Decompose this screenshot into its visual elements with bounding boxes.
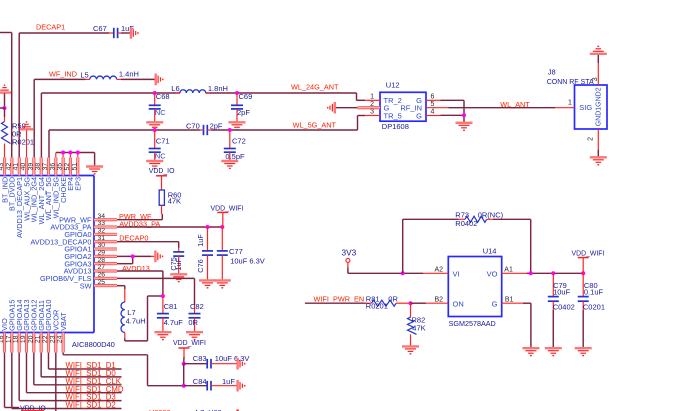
svg-text:31: 31 xyxy=(98,235,106,242)
wire VIO xyxy=(5,353,20,408)
wire WIFI_SD1_D3 xyxy=(19,353,121,402)
IC U? right pin 25 SW xyxy=(80,279,117,291)
svg-text:42: 42 xyxy=(5,163,12,171)
svg-text:WL_5G_ANT: WL_5G_ANT xyxy=(293,121,337,130)
svg-text:WIFI_SD1_D2: WIFI_SD1_D2 xyxy=(66,401,116,410)
node AVDD13 label xyxy=(122,264,150,273)
IC U? right pin 30 GPIOA1 xyxy=(64,242,117,254)
ground at B1 xyxy=(522,348,539,355)
node junction EP rail 3 xyxy=(76,151,80,155)
node junction VO xyxy=(529,271,533,275)
capacitor C77 xyxy=(217,227,265,280)
IC U? top pin 51 EP3 xyxy=(71,158,82,191)
node junction C83 xyxy=(182,362,186,366)
svg-text:23: 23 xyxy=(49,335,56,343)
wire WF_IND to ground xyxy=(121,78,156,80)
wire U12 pin2 to ground xyxy=(336,107,358,109)
svg-text:C81: C81 xyxy=(164,302,178,311)
power VDD_IO bottom xyxy=(20,405,46,411)
svg-text:C84: C84 xyxy=(193,377,207,386)
svg-text:40: 40 xyxy=(20,163,27,171)
U12 pin 6 G xyxy=(416,93,440,105)
svg-text:TR_5: TR_5 xyxy=(384,111,402,120)
resistor R73 xyxy=(455,211,503,229)
node WL_ANT label xyxy=(500,100,530,109)
svg-text:29: 29 xyxy=(98,249,106,256)
IC U14 SGM2578AAD outline xyxy=(448,246,501,328)
capacitor C71 xyxy=(149,130,170,161)
svg-text:28: 28 xyxy=(98,257,106,264)
IC U? top pin 36 WL_IND_5G xyxy=(49,158,60,219)
node junction C68 xyxy=(153,91,157,95)
IC U? bottom pin 18 GPIOA14 xyxy=(13,300,24,353)
ground at U12 xyxy=(456,123,473,130)
ground at C81 xyxy=(154,332,171,339)
wire AVDD33_PA xyxy=(117,226,222,228)
ground at C71 xyxy=(146,161,163,168)
svg-text:1.4nH: 1.4nH xyxy=(119,69,139,78)
svg-text:38: 38 xyxy=(35,163,42,171)
svg-text:2pF: 2pF xyxy=(237,108,250,117)
wire GPIOB6/V_FLS xyxy=(117,278,195,305)
svg-text:EP3: EP3 xyxy=(74,177,83,191)
ground sideways at C67 xyxy=(131,27,138,39)
svg-text:37: 37 xyxy=(42,163,49,171)
clipped text remnants bottom xyxy=(149,408,239,411)
svg-text:47K: 47K xyxy=(168,196,181,205)
resistor R59 xyxy=(2,108,35,158)
IC U? bottom pin 17 GPIOA15 xyxy=(5,300,16,353)
U12 pin 3 TR_5 xyxy=(365,108,402,120)
svg-text:35: 35 xyxy=(57,163,64,171)
svg-text:18: 18 xyxy=(13,335,20,343)
ground at C77 xyxy=(214,280,231,287)
wire DECAP1 xyxy=(19,33,109,158)
wire WIFI_SD1_D2 xyxy=(12,353,122,410)
svg-text:1uF: 1uF xyxy=(196,234,205,247)
svg-text:R0402: R0402 xyxy=(455,219,477,228)
wire BT_DVDD xyxy=(0,33,12,158)
J8 pin 1 SIG xyxy=(555,100,592,112)
capacitor C68 xyxy=(149,92,170,122)
svg-text:CONN RF STA: CONN RF STA xyxy=(547,79,594,86)
ground (flipped) at J8 top xyxy=(590,46,607,53)
svg-text:C82: C82 xyxy=(190,302,204,311)
svg-text:C69: C69 xyxy=(239,92,253,101)
node junction GPIOA2 xyxy=(131,254,135,258)
svg-text:17: 17 xyxy=(5,335,12,343)
IC U? top pin 42 BT_DVDD xyxy=(5,158,16,211)
wire stub to left edge xyxy=(0,107,5,109)
svg-text:20: 20 xyxy=(27,335,34,343)
wire VO rail xyxy=(527,272,584,274)
capacitor C72 xyxy=(224,130,246,161)
capacitor C83 xyxy=(184,354,250,368)
svg-text:39: 39 xyxy=(27,163,34,171)
node AVDD33_PA label xyxy=(119,220,160,229)
svg-text:51: 51 xyxy=(71,163,78,171)
wire VCOR xyxy=(55,353,57,411)
U12 pin 4 G xyxy=(416,108,440,120)
node junction C77 xyxy=(220,225,224,229)
J8 pin 3 xyxy=(592,55,599,86)
svg-text:WL_24G_ANT: WL_24G_ANT xyxy=(291,83,339,92)
ground sideways at U12 pin2 xyxy=(328,102,335,114)
capacitor C75 xyxy=(169,248,184,274)
ground sideways at L5 xyxy=(156,74,163,86)
wire DECAP0 xyxy=(117,242,179,248)
U12 pin 5 RF_IN xyxy=(426,101,448,108)
ground at C80 xyxy=(575,348,592,355)
svg-text:4.7uH: 4.7uH xyxy=(126,317,146,326)
ground at C76 xyxy=(199,280,216,287)
svg-text:VDD_WIFI: VDD_WIFI xyxy=(572,251,605,258)
wire WL_AUX_5G xyxy=(26,130,28,158)
svg-text:L6: L6 xyxy=(171,84,179,93)
svg-text:U12: U12 xyxy=(386,81,400,90)
ground at EP rail xyxy=(86,167,103,174)
node junction C80 xyxy=(581,271,585,275)
node DECAP0 label xyxy=(119,234,148,243)
power VDD_WIFI at C83 xyxy=(173,340,206,364)
svg-text:L5: L5 xyxy=(80,70,88,79)
IC U? top pin 40 WL_AUX_5G xyxy=(20,158,31,221)
node junction R82 xyxy=(409,301,413,305)
wire R73 left xyxy=(403,219,459,273)
resistor R81 xyxy=(366,294,411,310)
node DECAP1 label xyxy=(36,23,65,32)
ground at C75 xyxy=(170,274,187,281)
svg-text:4.7uF: 4.7uF xyxy=(164,318,184,327)
IC U? AIC8800D40 outline xyxy=(0,176,115,350)
IC U? bottom pin 19 GPIOA13 xyxy=(20,300,31,353)
svg-text:VO: VO xyxy=(487,269,498,278)
svg-text:19: 19 xyxy=(20,335,27,343)
IC U? bottom pin 22 GPIOA10 xyxy=(42,300,53,353)
IC U? bottom pin 23 VCOR xyxy=(49,310,60,353)
wire EP rail xyxy=(56,153,95,167)
svg-text:2: 2 xyxy=(370,101,374,108)
power VDD_WIFI at C80 xyxy=(572,251,605,274)
node WF_IND label xyxy=(49,70,77,79)
IC U? bottom pin 24 VBAT xyxy=(57,312,68,353)
connector J8 CONN RF STA outline xyxy=(547,68,607,129)
power VDD_WIFI at C77 xyxy=(211,206,244,227)
svg-text:27: 27 xyxy=(98,264,106,271)
svg-text:C71: C71 xyxy=(156,136,170,145)
ground sideways at GPIOA2 xyxy=(155,251,162,263)
svg-text:21: 21 xyxy=(35,335,42,343)
svg-text:1uF: 1uF xyxy=(121,24,134,33)
svg-text:52: 52 xyxy=(64,163,71,171)
svg-text:0.1uF: 0.1uF xyxy=(584,287,604,296)
inductor L6 xyxy=(171,84,228,93)
resistor R82 xyxy=(408,303,426,346)
node junction C69 xyxy=(235,91,239,95)
resistor R60 xyxy=(159,190,181,214)
capacitor C67 xyxy=(93,24,134,38)
wire PWR_WF xyxy=(117,214,162,220)
wire SW xyxy=(117,286,125,289)
IC U? bottom pin 21 GPIOA11 xyxy=(35,300,46,352)
node PWR_WF label xyxy=(119,212,152,221)
IC U? right pin 28 GPIOA3 xyxy=(64,257,117,269)
node junction R59 top xyxy=(3,106,7,110)
IC U? top pin 41 AVDD13_DECAP1 xyxy=(13,158,24,239)
svg-text:1: 1 xyxy=(568,100,572,107)
wire WL_ANT xyxy=(448,107,555,109)
ground at C68 xyxy=(146,122,163,129)
ground at C72 xyxy=(221,161,238,168)
wire WL_24G_ANT xyxy=(41,93,365,158)
svg-text:U14: U14 xyxy=(483,246,497,255)
IC U? top pin 52 EP4 xyxy=(64,158,75,191)
svg-text:SIG: SIG xyxy=(579,103,592,112)
svg-text:2: 2 xyxy=(588,137,595,141)
ground sideways at C83 xyxy=(238,358,245,370)
wire R73 right xyxy=(493,219,531,273)
IC U? top pin 43 BT_IND xyxy=(0,158,9,203)
ground (flipped) at BT_IND xyxy=(0,85,11,92)
svg-text:1uF: 1uF xyxy=(174,257,183,270)
U14 pin A1 VO xyxy=(487,266,527,278)
svg-text:SGM2578AAD: SGM2578AAD xyxy=(449,319,496,328)
ground at C79 xyxy=(545,348,562,355)
svg-text:WF_IND: WF_IND xyxy=(49,70,77,79)
node junction EP rail 1 xyxy=(61,151,65,155)
svg-text:C0402: C0402 xyxy=(553,303,575,312)
svg-text:WIFI_PWR_EN: WIFI_PWR_EN xyxy=(314,294,365,303)
svg-text:R0201: R0201 xyxy=(366,302,388,311)
svg-text:GND1GND2: GND1GND2 xyxy=(596,87,603,126)
node junction C71 xyxy=(153,128,157,132)
svg-text:J8: J8 xyxy=(548,68,556,77)
svg-text:3: 3 xyxy=(370,108,374,115)
ground at C69 xyxy=(229,122,246,129)
node junction U12 pin4 xyxy=(462,113,466,117)
IC U? top pin 37 WL_ANT_5G xyxy=(42,158,53,221)
svg-text:1uF: 1uF xyxy=(222,377,235,386)
svg-text:G: G xyxy=(492,299,498,308)
capacitor C70 xyxy=(186,121,223,135)
U14 pin A2 VI xyxy=(423,266,459,278)
svg-text:2pF: 2pF xyxy=(210,121,223,130)
node junction AVDD13 C81 xyxy=(161,294,165,298)
svg-text:43: 43 xyxy=(0,163,5,171)
IC U? right pin 34 PWR_WF xyxy=(59,213,117,225)
svg-text:26: 26 xyxy=(98,271,106,278)
wire WIFI_SD1_D0 xyxy=(41,353,121,379)
svg-text:VDD_IO: VDD_IO xyxy=(149,168,175,175)
inductor L7 xyxy=(121,289,146,341)
wire B1 to ground xyxy=(523,303,531,348)
svg-text:AIC8800D40: AIC8800D40 xyxy=(72,340,115,349)
svg-text:A2: A2 xyxy=(434,266,443,273)
IC U? right pin 26 GPIOB6/V_FLS xyxy=(40,271,117,283)
wire R81 to ON xyxy=(411,302,426,304)
IC U? right pin 31 AVDD13_DECAP0 xyxy=(30,235,117,247)
node WL_5G_ANT label xyxy=(293,121,337,130)
svg-text:DP1608: DP1608 xyxy=(382,122,409,131)
svg-text:34: 34 xyxy=(98,213,106,220)
capacitor C81 xyxy=(157,296,183,332)
wire VBAT xyxy=(63,353,184,386)
wire WIFI_SD1_CLK xyxy=(34,353,122,386)
svg-text:C76: C76 xyxy=(196,259,205,272)
svg-text:10uF: 10uF xyxy=(553,287,571,296)
power VDD_IO xyxy=(149,168,175,190)
svg-text:VDD_WIFI: VDD_WIFI xyxy=(173,340,206,347)
wire U12 pins 6-4 to ground xyxy=(441,100,465,122)
node WIFI_PWR_EN label xyxy=(314,294,365,303)
svg-text:30: 30 xyxy=(98,242,106,249)
svg-text:3V3: 3V3 xyxy=(342,248,357,258)
wire WIFI_PWR_EN xyxy=(305,302,366,304)
IC U12 DP1608 outline xyxy=(380,81,426,131)
svg-text:R0201: R0201 xyxy=(12,138,34,147)
svg-text:4: 4 xyxy=(431,108,435,115)
capacitor C69 xyxy=(231,92,252,122)
capacitor C82 xyxy=(188,302,203,332)
node junction EP rail 2 xyxy=(68,151,72,155)
svg-text:DECAP1: DECAP1 xyxy=(36,23,65,32)
wire WL_5G_ANT xyxy=(49,116,365,158)
wire AVDD13 xyxy=(117,271,163,341)
svg-text:0R: 0R xyxy=(388,294,398,303)
node junction VI xyxy=(401,271,405,275)
svg-text:16: 16 xyxy=(0,335,5,343)
svg-text:B2: B2 xyxy=(434,296,443,303)
J8 pin 2 xyxy=(588,129,599,157)
U12 pin 2 G xyxy=(358,101,390,113)
svg-text:22: 22 xyxy=(42,335,49,343)
IC U? top pin 39 WL_IND_2G4 xyxy=(27,158,38,223)
U12 pin 1 TR_2 xyxy=(365,93,402,105)
IC U? right pin 29 GPIOA2 xyxy=(64,249,117,261)
svg-text:C68: C68 xyxy=(156,92,170,101)
U14 pin B2 ON xyxy=(426,296,464,308)
IC U? right pin 27 AVDD13 xyxy=(64,264,117,276)
svg-text:32: 32 xyxy=(98,227,106,234)
ground (flipped) at WL_AUX_5G xyxy=(20,122,33,129)
inductor L5 xyxy=(80,69,139,79)
IC U? bottom pin 20 GPIOA12 xyxy=(27,300,38,353)
svg-text:SW: SW xyxy=(80,281,92,290)
svg-text:ON: ON xyxy=(453,299,464,308)
wire WF_IND xyxy=(34,79,86,157)
svg-text:A1: A1 xyxy=(504,266,513,273)
svg-text:C77: C77 xyxy=(229,247,243,256)
svg-text:10uF 6.3V: 10uF 6.3V xyxy=(230,256,265,265)
svg-text:6: 6 xyxy=(431,93,435,100)
ground at J8 bottom xyxy=(590,157,607,164)
svg-text:AVDD13: AVDD13 xyxy=(122,264,150,273)
svg-text:VI: VI xyxy=(453,269,460,278)
IC U? top pin 38 WL_ANT_2G4 xyxy=(35,158,46,225)
node WL_24G_ANT label xyxy=(291,83,339,92)
svg-text:10uF 6.3V: 10uF 6.3V xyxy=(215,354,250,363)
svg-text:C83: C83 xyxy=(193,354,207,363)
svg-text:C72: C72 xyxy=(232,136,246,145)
svg-text:5: 5 xyxy=(431,101,435,108)
svg-text:G: G xyxy=(416,96,422,105)
svg-text:0R: 0R xyxy=(188,318,198,327)
IC U? right pin 32 GPIOA0 xyxy=(64,227,117,239)
svg-text:47K: 47K xyxy=(412,324,425,333)
svg-text:0R(NC): 0R(NC) xyxy=(478,211,504,220)
svg-text:B1: B1 xyxy=(505,296,514,303)
wire 3V3 to VI xyxy=(348,272,423,274)
IC U? top pin 35 CHOKE xyxy=(57,158,68,203)
svg-text:25: 25 xyxy=(98,279,106,286)
svg-text:1.8nH: 1.8nH xyxy=(208,84,228,93)
U12 pin RF_IN label xyxy=(400,103,422,112)
capacitor C76 xyxy=(196,227,213,280)
svg-text:24: 24 xyxy=(57,335,64,343)
svg-text:36: 36 xyxy=(49,163,56,171)
node junction C79 xyxy=(551,271,555,275)
node junction C72 xyxy=(228,128,232,132)
svg-text:33: 33 xyxy=(98,220,106,227)
node junction C76 xyxy=(206,225,210,229)
wire WIFI_SD1_D1 xyxy=(48,353,121,371)
svg-text:41: 41 xyxy=(13,163,20,171)
wire WIFI_SD1_CMD xyxy=(26,353,123,394)
wire VDD_WIFI vertical xyxy=(183,364,185,386)
wire BT_IND vertical xyxy=(4,93,6,108)
svg-text:C70: C70 xyxy=(186,121,200,130)
IC U? right pin 33 AVDD33_PA xyxy=(50,220,117,232)
capacitor C84 xyxy=(184,377,238,390)
svg-text:VBAT: VBAT xyxy=(59,312,68,331)
U14 pin B1 G xyxy=(492,296,523,308)
node junction C84 xyxy=(182,384,186,388)
svg-text:NC: NC xyxy=(155,152,166,161)
svg-text:1: 1 xyxy=(370,93,374,100)
svg-text:0.5pF: 0.5pF xyxy=(225,152,245,161)
power node 3V3 xyxy=(342,248,357,274)
svg-text:G: G xyxy=(416,111,422,120)
svg-text:NC: NC xyxy=(155,108,166,117)
ground sideways at C84 xyxy=(238,380,245,392)
svg-text:VDD_WIFI: VDD_WIFI xyxy=(211,206,244,213)
svg-text:C67: C67 xyxy=(93,24,107,33)
ground at C82 xyxy=(186,332,203,339)
svg-text:C0201: C0201 xyxy=(583,303,605,312)
ground at R82 xyxy=(402,346,419,353)
IC U? bottom pin 16 VIO xyxy=(0,318,9,353)
wire GPIOA2 GPIOA3 xyxy=(117,256,155,263)
capacitor C79 xyxy=(548,273,575,347)
capacitor C80 xyxy=(578,273,605,347)
